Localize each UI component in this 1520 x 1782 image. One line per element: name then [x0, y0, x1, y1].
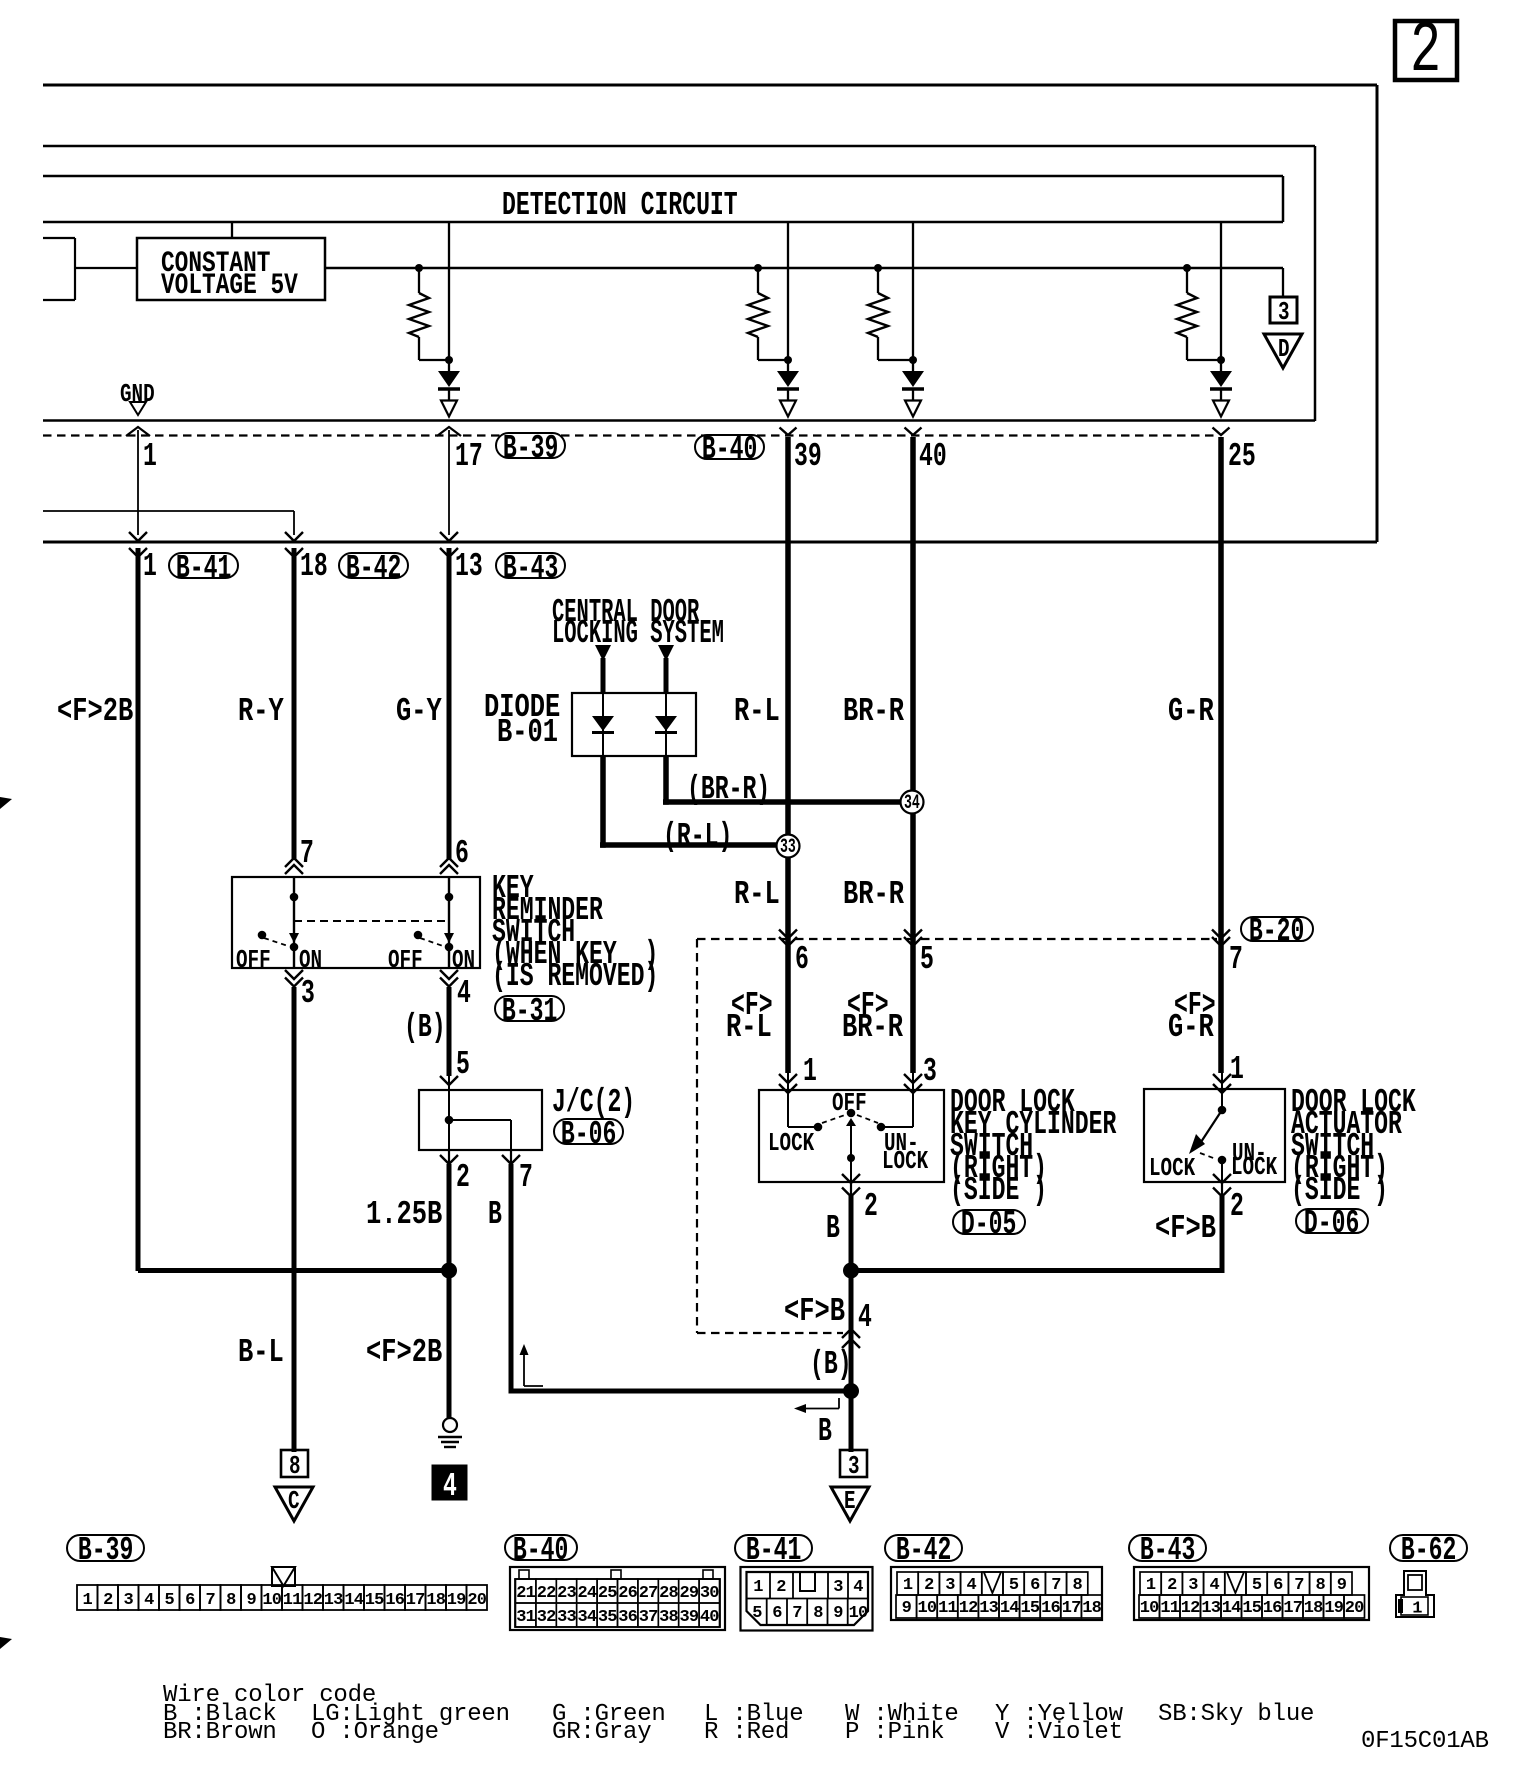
- node 5V rail to resistor sensor line 39: [754, 264, 762, 272]
- label OFF: [832, 1095, 867, 1111]
- svg-text:1: 1: [753, 1578, 763, 1597]
- svg-text:3: 3: [123, 1591, 133, 1610]
- diode clamp sensor line 25: [1210, 371, 1232, 387]
- page edge arrow upper: [0, 797, 12, 809]
- connector arrow pin 1 key cylinder: [779, 1074, 797, 1083]
- connector arrow pin 25: [1213, 428, 1230, 436]
- wire BR-R thin into switch: [912, 1073, 914, 1091]
- svg-text:18: 18: [426, 1591, 445, 1610]
- svg-text:24: 24: [577, 1584, 596, 1603]
- svg-text:10: 10: [1140, 1599, 1159, 1618]
- label (B): [404, 1018, 446, 1038]
- svg-text:25: 25: [598, 1584, 617, 1603]
- wire feed to pin 18: [43, 510, 294, 512]
- terminal box 4 (black): [433, 1466, 466, 1499]
- diode clamp sensor line 17: [438, 371, 460, 387]
- node 5V rail to resistor sensor line 40: [874, 264, 882, 272]
- label <F>B actuator: [1155, 1219, 1216, 1239]
- label R-Y: [238, 702, 284, 722]
- label OFF right: [388, 952, 423, 968]
- svg-text:12: 12: [959, 1599, 978, 1618]
- svg-text:13: 13: [1201, 1599, 1220, 1618]
- label (RIGHT) actuator: [1291, 1159, 1388, 1179]
- exit arrow sensor line 25: [1213, 401, 1229, 417]
- label 1.25B: [366, 1205, 442, 1225]
- right lever dashed throw: [420, 938, 443, 946]
- svg-text:11: 11: [1160, 1599, 1179, 1618]
- label <F> BR-R: [847, 996, 889, 1016]
- svg-text:28: 28: [659, 1584, 678, 1603]
- svg-text:9: 9: [833, 1604, 843, 1623]
- label R-L lower: [734, 885, 780, 905]
- direction arrow up (to page 1): [523, 1350, 525, 1386]
- wire sensor line 39 vertical: [787, 222, 789, 371]
- label B: [488, 1205, 502, 1225]
- wire <F>2B horizontal link: [138, 1268, 449, 1273]
- label DOOR LOCK: [950, 1093, 1075, 1113]
- connector block B-62: [1396, 1571, 1434, 1617]
- svg-text:8: 8: [226, 1591, 236, 1610]
- wire thin into J/C: [448, 1076, 450, 1090]
- label DETECTION CIRCUIT: [502, 196, 738, 216]
- connector label B-62 bottom: [1389, 1534, 1468, 1562]
- connector label B-31: [494, 995, 565, 1022]
- label (R-L): [663, 827, 732, 847]
- page connector triangle C: [275, 1487, 313, 1521]
- svg-text:12: 12: [1181, 1599, 1200, 1618]
- wire G-R thin into switch: [1221, 1073, 1223, 1091]
- connector block B-41: [741, 1567, 873, 1631]
- svg-text:2: 2: [924, 1576, 934, 1595]
- key cylinder dashed throws: [822, 1115, 845, 1123]
- svg-text:13: 13: [324, 1591, 343, 1610]
- wire 5V rail to terminal 3: [1282, 268, 1284, 297]
- wire thin from actuator pin2: [1221, 1182, 1223, 1196]
- connector arrow pin 4 key reminder: [440, 970, 458, 979]
- label SWITCH: [492, 923, 575, 943]
- page connector triangle D: [1264, 334, 1302, 368]
- splice node 34: [901, 791, 924, 814]
- pin 1: [143, 447, 157, 467]
- terminal box 3: [1270, 297, 1297, 323]
- wire inside diode pack right: [665, 694, 667, 755]
- connector label B-43: [495, 552, 566, 579]
- wire R-L (pin39): [785, 437, 791, 1073]
- connector label B-39 bottom: [66, 1534, 145, 1562]
- connector arrow pin 5 door harness: [904, 930, 922, 939]
- resistor pull-up for sensor line 17: [418, 268, 420, 293]
- wire regulator top to bus: [231, 222, 233, 238]
- svg-text:15: 15: [1020, 1599, 1039, 1618]
- connector arrow pin 2 key cylinder: [842, 1174, 860, 1183]
- svg-text:9: 9: [1337, 1576, 1347, 1595]
- svg-text:5: 5: [1009, 1576, 1019, 1595]
- svg-text:33: 33: [557, 1608, 576, 1627]
- svg-text:3: 3: [833, 1578, 843, 1597]
- svg-text:17: 17: [1283, 1599, 1302, 1618]
- wire entry arrow right from central locking: [658, 645, 674, 661]
- pin 1: [143, 557, 157, 577]
- pin 18: [300, 557, 328, 577]
- connector arrow pin 2 actuator: [1213, 1174, 1231, 1183]
- actuator pole wire: [1221, 1091, 1223, 1110]
- wire (R-L) from diode pack to node 33: [600, 756, 606, 848]
- node left pole: [290, 893, 299, 902]
- svg-text:19: 19: [447, 1591, 466, 1610]
- svg-text:10: 10: [849, 1604, 868, 1623]
- page edge arrow lower: [0, 1637, 12, 1649]
- svg-text:17: 17: [1062, 1599, 1081, 1618]
- pin 5: [920, 950, 934, 970]
- splice ground junction: [441, 1263, 457, 1279]
- label B: [826, 1219, 840, 1239]
- pin 4: [457, 984, 471, 1004]
- svg-text:16: 16: [1041, 1599, 1060, 1618]
- connector label B-39: [495, 432, 566, 459]
- label CONSTANT: [161, 254, 270, 274]
- connector arrow pin 6 door harness: [779, 930, 797, 939]
- svg-text:2: 2: [103, 1591, 113, 1610]
- key reminder switch right pole wire: [448, 877, 450, 944]
- pin 2 actuator: [1230, 1197, 1244, 1217]
- pin 1: [803, 1062, 817, 1082]
- label R-L upper: [734, 702, 780, 722]
- pin 3: [301, 984, 315, 1004]
- svg-text:1: 1: [903, 1576, 913, 1595]
- junction connector J/C(2) box B-06: [419, 1090, 542, 1150]
- label GND: [120, 386, 155, 402]
- label UN-: [884, 1135, 919, 1151]
- svg-text:20: 20: [467, 1591, 486, 1610]
- connector label D-06: [1295, 1208, 1369, 1234]
- svg-text:1: 1: [82, 1591, 92, 1610]
- label REMINDER: [492, 901, 603, 921]
- node J/C branch: [445, 1116, 454, 1125]
- connector arrow pin 40: [905, 428, 922, 436]
- svg-text:19: 19: [1324, 1599, 1343, 1618]
- svg-text:2: 2: [776, 1578, 786, 1597]
- svg-text:8: 8: [813, 1604, 823, 1623]
- pin 4: [858, 1308, 872, 1328]
- svg-text:7: 7: [1294, 1576, 1304, 1595]
- legend row 1: [163, 1706, 277, 1723]
- pin 2: [864, 1197, 878, 1217]
- connector label B-06: [553, 1118, 624, 1145]
- exit arrow sensor line 17: [441, 401, 457, 417]
- svg-text:31: 31: [516, 1608, 535, 1627]
- connector arrow pin 3 key cylinder: [904, 1074, 922, 1083]
- label ON right: [452, 952, 475, 968]
- svg-text:10: 10: [262, 1591, 281, 1610]
- wire pin17 down: [448, 430, 450, 535]
- svg-text:39: 39: [679, 1608, 698, 1627]
- wire 1.25B / <F>2B to ground: [447, 1164, 452, 1420]
- pin 6: [795, 950, 809, 970]
- label LOCK2: [882, 1153, 928, 1169]
- label KEY CYLINDER: [950, 1115, 1116, 1135]
- left OFF contact: [258, 931, 267, 940]
- door lock key cylinder switch box: [759, 1090, 944, 1182]
- wire G-Y (pin13 B-43): [447, 548, 452, 860]
- right pole to box bottom: [448, 944, 450, 968]
- label <F> G-R: [1174, 996, 1216, 1016]
- wire pin1 inside key cylinder: [787, 1090, 789, 1127]
- wire (B) from pin4 to J/C: [447, 987, 452, 1076]
- label wire color code: [163, 1687, 376, 1704]
- wire B from key cylinder pin2: [849, 1196, 854, 1391]
- svg-text:36: 36: [618, 1608, 637, 1627]
- wire link to actuator output: [851, 1268, 1221, 1273]
- svg-text:1: 1: [1146, 1576, 1156, 1595]
- svg-text:34: 34: [577, 1608, 596, 1627]
- svg-text:6: 6: [1030, 1576, 1040, 1595]
- pin 2: [456, 1168, 470, 1188]
- svg-text:9: 9: [902, 1599, 912, 1618]
- wire B-L down to terminal 8: [292, 987, 297, 1452]
- svg-text:38: 38: [659, 1608, 678, 1627]
- label B lowest: [818, 1422, 832, 1442]
- label LOCK actuator: [1149, 1160, 1195, 1176]
- svg-text:14: 14: [1000, 1599, 1019, 1618]
- svg-text:27: 27: [639, 1584, 658, 1603]
- label UN- actuator: [1232, 1145, 1267, 1161]
- pin 7: [1229, 950, 1243, 970]
- wire B horizontal to splice: [511, 1389, 851, 1394]
- actuator output wire: [1221, 1160, 1223, 1182]
- connector label D-05: [952, 1209, 1026, 1235]
- svg-text:3: 3: [945, 1576, 955, 1595]
- label J/C(2): [552, 1093, 635, 1113]
- svg-text:14: 14: [1222, 1599, 1241, 1618]
- right ON contact: [445, 943, 454, 952]
- wire to terminal 3: [849, 1391, 854, 1452]
- label B-01: [497, 723, 558, 743]
- terminal box 3: [840, 1450, 867, 1477]
- svg-text:8: 8: [1072, 1576, 1082, 1595]
- wire inside diode pack left: [602, 694, 604, 755]
- wire actuator pin2 down: [1220, 1196, 1225, 1273]
- door lock actuator switch box: [1144, 1089, 1285, 1182]
- splice node 33: [777, 835, 800, 858]
- svg-text:4: 4: [1209, 1576, 1219, 1595]
- page number box 2: [1395, 21, 1457, 80]
- node 5V rail to resistor sensor line 25: [1183, 264, 1191, 272]
- svg-text:32: 32: [537, 1608, 556, 1627]
- pin 17: [455, 447, 483, 467]
- diode pack B-01 box: [572, 693, 696, 756]
- connector arrow pin 5 J/C: [440, 1076, 458, 1085]
- wire entry arrow left from central locking: [595, 645, 611, 661]
- connector block B-40: [510, 1567, 725, 1630]
- wire sensor line 40 vertical: [912, 222, 914, 371]
- wire pin3 inside key cylinder: [912, 1090, 914, 1127]
- label (SIDE ) actuator: [1291, 1181, 1388, 1201]
- wire inside J/C vertical: [448, 1090, 450, 1150]
- svg-text:21: 21: [516, 1584, 535, 1603]
- actuator lever: [1201, 1110, 1222, 1142]
- terminal box 8: [281, 1450, 308, 1477]
- LOCK contact key cylinder: [814, 1123, 823, 1132]
- connector label B-43 bottom: [1128, 1534, 1207, 1562]
- label DIODE: [484, 698, 560, 718]
- svg-text:29: 29: [679, 1584, 698, 1603]
- label LOCK: [768, 1135, 814, 1151]
- label DOOR LOCK actuator: [1291, 1093, 1416, 1113]
- splice B wire: [843, 1383, 859, 1399]
- svg-text:15: 15: [1242, 1599, 1261, 1618]
- node 5V rail to resistor sensor line 17: [415, 264, 423, 272]
- svg-text:20: 20: [1345, 1599, 1364, 1618]
- label 0F15C01AB: [1361, 1733, 1489, 1750]
- label (IS REMOVED): [492, 967, 658, 987]
- node right pole: [445, 893, 454, 902]
- node resistor joins sensor line 17: [445, 356, 453, 364]
- ground triangle at ECU pin 1: [130, 402, 146, 415]
- pin 3: [923, 1062, 937, 1082]
- connector label B-41 bottom: [734, 1534, 813, 1562]
- svg-text:2: 2: [1167, 1576, 1177, 1595]
- connector arrow B-41 top: [129, 532, 147, 541]
- label BR-R upper: [843, 702, 904, 722]
- arrow into actuator switch: [1213, 1074, 1231, 1083]
- label BR-R lower: [843, 885, 904, 905]
- label G-R upper: [1168, 702, 1214, 722]
- connector arrow pin 7 key reminder: [285, 858, 303, 867]
- wire diode to edge sensor line 40: [912, 389, 914, 401]
- svg-text:16: 16: [1263, 1599, 1282, 1618]
- pin 25: [1228, 447, 1256, 467]
- dashed harness boundary box: [697, 938, 1217, 940]
- label CENTRAL DOOR: [552, 603, 699, 623]
- wire R-L thin into switch: [787, 1073, 789, 1091]
- label G-Y: [396, 702, 442, 722]
- internal block (cut at left edge): [43, 237, 75, 239]
- connector label B-40: [694, 434, 765, 460]
- pole pivot dot: [847, 1154, 855, 1162]
- svg-text:22: 22: [537, 1584, 556, 1603]
- key reminder switch left pole wire: [293, 877, 295, 944]
- label ACTUATOR: [1291, 1115, 1402, 1135]
- resistor pull-up for sensor line 40: [877, 268, 879, 293]
- chassis ground symbol: [443, 1418, 457, 1432]
- label ON left: [299, 952, 322, 968]
- pin 5: [456, 1055, 470, 1075]
- wire <F>2B column (pin1 B-41): [136, 548, 141, 1271]
- connector label B-20: [1240, 916, 1314, 942]
- label LOCKING SYSTEM: [552, 624, 724, 644]
- wire (BR-R) from diode pack to node 34: [663, 756, 669, 805]
- svg-text:37: 37: [639, 1608, 658, 1627]
- splice key cylinder/actuator: [843, 1263, 859, 1279]
- svg-text:30: 30: [700, 1584, 719, 1603]
- B-39 key notch: [272, 1567, 295, 1586]
- connector label B-42 bottom: [884, 1534, 963, 1562]
- wire BR-R (pin40): [910, 437, 916, 1073]
- label VOLTAGE 5V: [161, 276, 298, 296]
- label SWITCH: [950, 1137, 1033, 1157]
- wire diode to edge sensor line 17: [448, 389, 450, 401]
- connector block B-43: [1134, 1567, 1369, 1620]
- detection circuit box: [43, 175, 1283, 178]
- diode clamp sensor line 39: [777, 371, 799, 387]
- label <F>2B: [57, 702, 133, 722]
- diode D2 in B-01: [655, 716, 677, 731]
- resistor pull-up for sensor line 39: [757, 268, 759, 293]
- svg-text:14: 14: [344, 1591, 363, 1610]
- pin 6: [455, 844, 469, 864]
- right switch lever arrow (ON): [444, 933, 454, 943]
- svg-text:6: 6: [772, 1604, 782, 1623]
- ECU inner box 2: [43, 145, 1315, 148]
- svg-text:8: 8: [1315, 1576, 1325, 1595]
- connector label B-42: [338, 552, 409, 579]
- wire sensor line 17 vertical: [448, 222, 450, 371]
- label (RIGHT): [950, 1159, 1047, 1179]
- svg-text:17: 17: [406, 1591, 425, 1610]
- label B-L: [238, 1343, 284, 1363]
- svg-text:10: 10: [917, 1599, 936, 1618]
- label <F>B: [784, 1302, 845, 1322]
- svg-text:35: 35: [598, 1608, 617, 1627]
- connector arrow pin 4 harness: [842, 1329, 860, 1338]
- actuator dashed throw: [1200, 1153, 1216, 1159]
- pin 39: [794, 447, 822, 467]
- svg-text:5: 5: [164, 1591, 174, 1610]
- direction arrow left: [800, 1408, 839, 1410]
- exit arrow sensor line 39: [780, 401, 796, 417]
- connector block B-42: [891, 1567, 1102, 1620]
- wire inside J/C branch: [449, 1119, 511, 1121]
- legend row 2: [163, 1724, 277, 1741]
- label (BR-R): [687, 780, 770, 800]
- ECU outer box (cut at left edge): [43, 84, 1377, 87]
- svg-text:4: 4: [966, 1576, 976, 1595]
- svg-text:5: 5: [1252, 1576, 1262, 1595]
- mechanical link dashed: [294, 920, 449, 922]
- 5V supply rail: [325, 267, 1283, 269]
- svg-text:15: 15: [365, 1591, 384, 1610]
- connector label B-41: [168, 552, 239, 579]
- connector arrow pin 2 J/C: [440, 1155, 458, 1164]
- svg-text:7: 7: [205, 1591, 215, 1610]
- exit arrow sensor line 40: [905, 401, 921, 417]
- node resistor joins sensor line 40: [909, 356, 917, 364]
- wire block to regulator: [75, 267, 137, 269]
- connector label B-40 bottom: [504, 1534, 578, 1561]
- svg-text:26: 26: [618, 1584, 637, 1603]
- diode clamp sensor line 40: [902, 371, 924, 387]
- label <F>2B lower: [366, 1343, 442, 1363]
- svg-text:6: 6: [185, 1591, 195, 1610]
- connector arrow pin 7 J/C: [502, 1155, 520, 1164]
- svg-text:13: 13: [979, 1599, 998, 1618]
- svg-text:5: 5: [752, 1604, 762, 1623]
- connector arrow pin 39: [780, 428, 797, 436]
- pin 1 actuator: [1230, 1060, 1244, 1080]
- wire R-Y (pin18 B-42): [292, 548, 297, 860]
- connector block B-39: [77, 1585, 98, 1610]
- svg-text:6: 6: [1273, 1576, 1283, 1595]
- svg-text:1: 1: [1412, 1600, 1422, 1619]
- constant voltage 5V regulator box: [137, 238, 325, 300]
- svg-text:9: 9: [246, 1591, 256, 1610]
- svg-text:23: 23: [557, 1584, 576, 1603]
- connector arrow pin 6 key reminder: [440, 858, 458, 867]
- wire B from J/C pin7: [509, 1164, 514, 1394]
- label KEY: [492, 879, 534, 899]
- svg-text:18: 18: [1304, 1599, 1323, 1618]
- pin 7: [519, 1168, 533, 1188]
